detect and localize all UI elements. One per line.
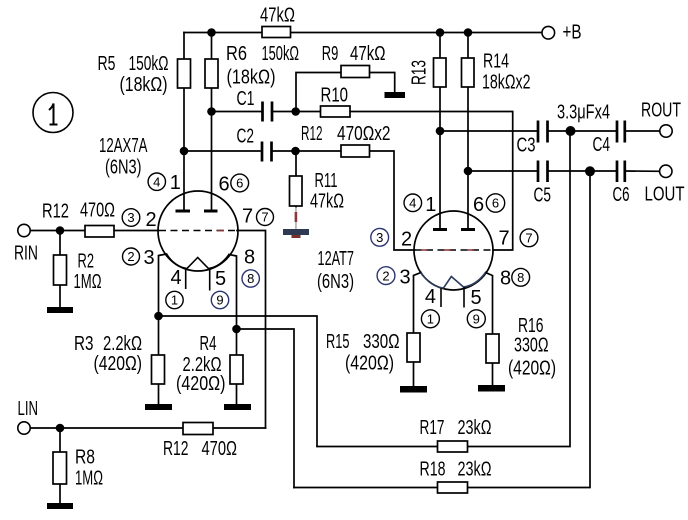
svg-text:C4: C4 <box>593 134 611 156</box>
svg-text:9: 9 <box>216 293 223 308</box>
pin circled V1 6 <box>231 174 249 192</box>
svg-text:1: 1 <box>171 293 178 308</box>
resistor R16 body <box>486 334 499 363</box>
svg-text:R8: R8 <box>75 447 95 469</box>
svg-text:(420Ω): (420Ω) <box>345 353 394 375</box>
svg-text:LOUT: LOUT <box>645 184 685 206</box>
svg-text:R12: R12 <box>301 123 323 145</box>
svg-text:12AX7A: 12AX7A <box>99 135 148 157</box>
wire R14 branch vertical <box>467 33 469 230</box>
pin circled V2 3 <box>371 228 389 246</box>
svg-text:4: 4 <box>409 196 416 211</box>
wire R10 to tube2 pin7 <box>350 112 513 251</box>
resistor R3 body <box>152 355 165 384</box>
tube V2 pin labels <box>400 194 512 309</box>
svg-text:3: 3 <box>400 267 411 289</box>
wire tube1 pin3 down <box>159 254 167 316</box>
wire R2 branch <box>59 231 61 308</box>
svg-text:470Ωx2: 470Ωx2 <box>337 123 391 145</box>
junction tube1 cathode R4 <box>232 325 241 334</box>
tube V1 plate pin6 bar <box>204 210 218 213</box>
svg-text:8: 8 <box>517 270 524 285</box>
svg-text:1MΩ: 1MΩ <box>75 468 103 490</box>
ground of R15 <box>400 386 427 393</box>
svg-text:3: 3 <box>144 247 155 269</box>
resistor R14 body <box>462 58 475 87</box>
terminal +B <box>542 26 555 39</box>
svg-text:C2: C2 <box>237 126 255 148</box>
svg-text:R11: R11 <box>315 170 338 192</box>
ground of R8 <box>47 503 73 509</box>
junction C2 right node <box>291 147 300 156</box>
wire R5 branch vertical <box>183 33 185 212</box>
svg-text:4: 4 <box>425 286 436 308</box>
wire LIN to tube1 pin7 riser <box>30 427 266 429</box>
svg-text:R18: R18 <box>420 459 446 481</box>
svg-text:(420Ω): (420Ω) <box>176 373 226 395</box>
wire R13 branch vertical <box>439 33 441 230</box>
tube V1 heater pin5 stub <box>209 269 211 291</box>
svg-text:4: 4 <box>171 267 182 289</box>
svg-text:330Ω: 330Ω <box>514 335 549 357</box>
svg-text:2.2kΩ: 2.2kΩ <box>103 333 142 355</box>
svg-text:R9: R9 <box>322 43 339 65</box>
svg-text:LIN: LIN <box>18 398 39 420</box>
svg-text:(6N3): (6N3) <box>105 157 142 179</box>
junction R13 C3 <box>436 127 445 136</box>
svg-text:330Ω: 330Ω <box>363 331 400 353</box>
capacitor C2 plates <box>262 142 272 162</box>
tube V2 grid dashed <box>415 249 494 251</box>
junction RIN R2 <box>56 226 65 235</box>
resistor R9 body <box>341 66 370 78</box>
svg-text:6: 6 <box>473 194 484 216</box>
pin circled V1 3 <box>122 209 140 227</box>
wire R8 branch <box>59 428 61 503</box>
wire C1 left <box>212 111 263 113</box>
svg-text:3.3μFx4: 3.3μFx4 <box>557 102 610 124</box>
tube V1 plate pin1 bar <box>176 210 191 213</box>
resistor R12 bottom body <box>183 423 213 435</box>
svg-text:2: 2 <box>146 209 157 231</box>
wire RIN to tube1 grid <box>30 230 159 232</box>
svg-text:12AT7: 12AT7 <box>318 248 355 270</box>
svg-text:R5: R5 <box>98 53 116 75</box>
wire R9 branch <box>296 73 395 112</box>
svg-text:1: 1 <box>170 172 181 194</box>
svg-text:C5: C5 <box>534 185 552 207</box>
resistor R6 body <box>205 59 218 88</box>
svg-text:8: 8 <box>247 271 254 286</box>
svg-text:(18kΩ): (18kΩ) <box>120 74 168 96</box>
wire cathode1 to R17 <box>159 316 318 446</box>
resistor R12x2 body <box>341 145 370 157</box>
wire C3 row to ROUT <box>440 130 660 132</box>
resistor R4 body <box>230 355 243 384</box>
ground of R4 <box>224 404 251 410</box>
pin circled V2 4 <box>404 194 422 212</box>
svg-text:6: 6 <box>236 176 243 191</box>
junction C1 left <box>207 107 216 116</box>
wire tube2 pin8 to R16 <box>486 273 493 386</box>
resistor R5 body <box>178 59 191 88</box>
svg-text:R13: R13 <box>409 60 431 85</box>
svg-text:R6: R6 <box>226 43 247 65</box>
junction C3 C4 R17 <box>566 126 576 136</box>
wire R3 branch <box>158 316 160 404</box>
schematic number circle 1 <box>33 93 73 133</box>
svg-text:1MΩ: 1MΩ <box>74 271 102 293</box>
tube V2 plate pin6 bar <box>461 228 475 231</box>
wire tube1 pin7 to R12 bottom <box>237 231 266 429</box>
svg-text:18kΩx2: 18kΩx2 <box>482 72 531 94</box>
wire R12x2 to tube2 pin2 <box>370 151 415 250</box>
svg-text:150kΩ: 150kΩ <box>262 43 300 65</box>
tube V2 heater pin5 stub <box>463 287 465 308</box>
pin circled V2 2 <box>377 267 395 285</box>
svg-text:R3: R3 <box>74 333 94 355</box>
resistor 47k top body <box>262 27 291 38</box>
svg-text:23kΩ: 23kΩ <box>458 417 492 439</box>
resistor R15 body <box>407 333 420 362</box>
svg-text:R17: R17 <box>420 417 445 439</box>
svg-text:3: 3 <box>127 210 134 225</box>
grid red artifacts V2 <box>421 249 474 251</box>
junction top R6 <box>207 28 216 37</box>
pin circled V2 8 <box>512 268 530 286</box>
tube V1 pin labels <box>144 172 256 290</box>
svg-text:2: 2 <box>382 268 389 283</box>
tube V2 heater pin4 stub <box>440 289 442 308</box>
svg-text:5: 5 <box>215 268 226 290</box>
tube V2 plate pin1 bar <box>433 228 447 231</box>
svg-text:R12: R12 <box>42 201 69 223</box>
wire top +B rail <box>184 32 542 34</box>
svg-text:47kΩ: 47kΩ <box>350 43 386 65</box>
svg-text:3: 3 <box>376 230 383 245</box>
capacitor C6 plates <box>617 161 625 183</box>
svg-text:2: 2 <box>127 249 134 264</box>
wire tube1 pin8 down <box>229 255 237 330</box>
svg-text:R14: R14 <box>483 51 509 73</box>
svg-text:7: 7 <box>525 231 532 246</box>
tube V1 heater pin4 stub <box>185 269 187 290</box>
wire cathode2 of tube1 to R18 <box>237 329 295 488</box>
tube V2 12AT7 envelope <box>414 211 493 290</box>
svg-text:4: 4 <box>153 174 160 189</box>
pin circled V1 7 <box>257 209 274 226</box>
wire R11 lower faint <box>295 207 296 229</box>
junction R14 C5 <box>464 167 473 176</box>
svg-text:C1: C1 <box>237 88 255 110</box>
svg-text:8: 8 <box>244 247 255 269</box>
terminal LOUT <box>660 165 672 177</box>
svg-text:2: 2 <box>401 229 412 251</box>
svg-text:7: 7 <box>499 228 510 250</box>
wire C2 left <box>184 150 260 152</box>
svg-text:23kΩ: 23kΩ <box>458 459 492 481</box>
junction tube1 cathode R3 <box>154 312 163 321</box>
pin circled V1 1 <box>166 291 183 308</box>
svg-text:ROUT: ROUT <box>641 100 681 122</box>
svg-text:+B: +B <box>563 22 582 44</box>
svg-text:(420Ω): (420Ω) <box>94 353 143 375</box>
ground of R16 <box>478 385 505 392</box>
pin circled V2 6 <box>486 194 504 212</box>
svg-text:(420Ω): (420Ω) <box>508 358 556 380</box>
pin circled V2 7 <box>520 229 538 247</box>
svg-text:R15: R15 <box>326 331 350 353</box>
capacitor C5 plates <box>538 161 548 183</box>
svg-text:R2: R2 <box>78 251 95 273</box>
svg-text:R4: R4 <box>200 333 217 355</box>
svg-text:5: 5 <box>471 287 482 309</box>
wire R6 branch vertical <box>211 33 213 212</box>
svg-text:7: 7 <box>242 206 253 228</box>
tube V2 cathode <box>421 273 486 289</box>
wire R18 row and riser to C5/C6 node <box>294 171 590 488</box>
svg-text:(6N3): (6N3) <box>317 271 354 293</box>
wire R17 row and riser to C3/C4 node <box>317 131 570 447</box>
svg-text:470Ω: 470Ω <box>202 438 238 460</box>
wire R11 branch <box>295 151 297 207</box>
resistor R17 body <box>438 441 468 452</box>
junction C2 left <box>180 147 189 156</box>
capacitor C1 plates <box>263 102 273 122</box>
terminal LIN <box>18 422 30 434</box>
svg-text:8: 8 <box>500 268 511 290</box>
capacitor C3 plates <box>538 121 548 143</box>
pin circled V2 1 <box>421 310 439 328</box>
svg-text:C6: C6 <box>613 184 630 206</box>
svg-text:1: 1 <box>427 312 434 327</box>
tube V1 grid dashed <box>159 230 237 232</box>
wire tube2 pin3 to R15 <box>414 273 422 387</box>
svg-text:9: 9 <box>473 312 480 327</box>
ground of R3 <box>145 404 172 410</box>
resistor R8 body <box>53 452 67 484</box>
svg-text:6: 6 <box>492 196 499 211</box>
terminal ROUT <box>660 125 672 137</box>
svg-text:RIN: RIN <box>14 243 38 265</box>
resistor R2 body <box>54 255 67 285</box>
ground of R11 <box>283 229 309 235</box>
junction C1 right node <box>291 107 300 116</box>
svg-text:R12: R12 <box>163 438 189 460</box>
svg-text:1: 1 <box>425 194 436 216</box>
tube V1 cathode <box>167 254 230 269</box>
pin circled V1 4 <box>148 173 165 190</box>
wire C1 right to R10 <box>272 111 322 113</box>
resistor R11 body <box>290 176 303 206</box>
pin circled V2 9 <box>467 310 485 328</box>
resistor R12 input body <box>85 226 114 238</box>
terminal RIN <box>18 224 30 236</box>
junction C5 C6 R18 <box>585 166 595 176</box>
wire C5 row to LOUT <box>468 170 660 172</box>
pin circled V1 2 <box>123 248 140 265</box>
junction LIN R8 <box>56 424 65 433</box>
capacitor C4 plates <box>617 121 625 143</box>
svg-text:47kΩ: 47kΩ <box>310 191 344 213</box>
svg-text:470Ω: 470Ω <box>80 200 115 222</box>
resistor R10 body <box>321 106 351 117</box>
svg-text:47kΩ: 47kΩ <box>260 5 295 27</box>
tube V1 12AX7A envelope <box>158 191 238 271</box>
junction top R14 <box>464 28 473 37</box>
pin circled V1 8 <box>242 270 259 287</box>
junction top R13 <box>436 28 445 37</box>
svg-text:150kΩ: 150kΩ <box>129 53 169 75</box>
svg-text:C3: C3 <box>517 135 536 157</box>
ground of R9 <box>385 92 406 98</box>
svg-text:(18kΩ): (18kΩ) <box>227 67 276 89</box>
wire R4 branch <box>236 329 238 404</box>
svg-text:R10: R10 <box>321 85 349 107</box>
pin circled V1 9 <box>211 291 228 308</box>
svg-text:7: 7 <box>261 210 268 225</box>
wire C2 right to R12x2 <box>272 150 342 152</box>
svg-text:6: 6 <box>219 174 230 196</box>
resistor R18 body <box>438 482 468 493</box>
grid red artifact V1 <box>217 230 224 232</box>
resistor R13 body <box>434 58 447 87</box>
ground of R2 <box>47 307 73 313</box>
